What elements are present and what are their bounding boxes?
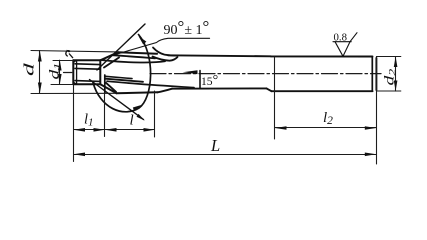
d dim arrows (38, 51, 42, 62)
d top extension line (31, 51, 118, 52)
construction line C (90, 80, 144, 120)
right extension line shank end (376, 57, 378, 165)
l dim arrows (105, 128, 117, 132)
neck top line (168, 55, 271, 56)
svg-text:L: L (210, 136, 220, 155)
cutter top flute helix 3 (102, 60, 165, 62)
pilot flute lines (75, 64, 100, 82)
center line left dash (64, 72, 72, 74)
arrowheads (38, 36, 398, 156)
small rake symbol above pilot (66, 50, 73, 58)
countersink cone edge top (100, 52, 118, 60)
roughness symbol 0.8 (333, 33, 357, 57)
15deg angle mark (199, 71, 201, 89)
15 deg arrowhead (183, 70, 198, 74)
construction line A 45deg (97, 24, 145, 70)
pilot chamfer edge line (76, 60, 78, 84)
bottom flute transition to neck (158, 89, 173, 93)
countersink cone edge top second tooth (104, 58, 119, 68)
d1 dim arrows (58, 60, 62, 70)
L dimension line (74, 154, 377, 156)
center line (150, 73, 381, 75)
cutter top flute helix 1 (112, 55, 155, 58)
l2 dimension line (275, 127, 377, 129)
d2 dimension line (395, 57, 397, 92)
bottom flute helix 1b (105, 79, 143, 82)
svg-text:0.8: 0.8 (334, 31, 348, 43)
l1 right extension (104, 93, 106, 137)
arc lower arrowhead (133, 105, 143, 111)
arc end arrowhead at 90deg vertex (138, 36, 146, 45)
svg-text:15°: 15° (201, 73, 218, 88)
d2 bottom extension (377, 90, 401, 92)
l dimension line (105, 129, 155, 131)
shank end face inner (371, 57, 373, 91)
top flute end hook upper curve (153, 48, 176, 56)
l2 left extension (274, 57, 276, 139)
l right extension (154, 91, 156, 137)
angle arc (93, 35, 151, 112)
d1 bottom extension (51, 84, 73, 86)
bottom flute helix 1 (105, 76, 132, 78)
leader with shelf for 90 deg (116, 38, 210, 54)
l1 dimension line (74, 129, 105, 131)
L dim arrows (73, 153, 85, 157)
cutter top edge (118, 52, 157, 54)
shank bottom line (272, 90, 373, 92)
line C end arrowhead (137, 114, 145, 121)
countersink cone edge bottom (100, 84, 116, 93)
cutter front gash vertical (104, 75, 106, 93)
shank top line (271, 55, 373, 57)
countersink cone edge bottom second tooth (106, 83, 116, 92)
cutter bottom edge with d extension line (31, 92, 117, 94)
svg-text:d: d (22, 62, 37, 76)
pilot corner chamfers (73, 60, 76, 84)
shank end face outer (375, 58, 377, 90)
step bottom chamfer (267, 88, 272, 91)
left extension line x=73.3 (73, 84, 75, 161)
dimension d line (39, 51, 41, 94)
bottom flute helix 2 (107, 81, 194, 87)
l1 dim arrows (73, 128, 85, 132)
l2 dim arrows (275, 126, 287, 130)
neck bottom line (172, 87, 267, 89)
d2 top extension (377, 56, 401, 58)
pilot d1 cylinder (73, 60, 100, 84)
d1 top extension (53, 60, 73, 62)
dimension d1 line (59, 60, 61, 84)
top flute end hook lower curve (153, 57, 178, 61)
d2 dim arrows (394, 57, 398, 68)
svg-text:l: l (130, 113, 134, 129)
